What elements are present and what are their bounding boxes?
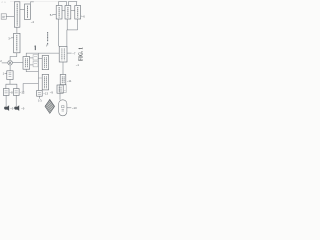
svg-text:~10: ~10 — [72, 106, 77, 110]
svg-text:~9: ~9 — [50, 90, 54, 94]
svg-text:~7: ~7 — [72, 52, 76, 56]
svg-text:~9: ~9 — [21, 107, 25, 111]
svg-text:5~: 5~ — [50, 13, 54, 17]
svg-text:~4: ~4 — [31, 20, 35, 24]
svg-text:~12: ~12 — [20, 91, 25, 95]
svg-text:1~: 1~ — [3, 72, 7, 76]
svg-text:~8: ~8 — [10, 90, 14, 94]
svg-text:~1: ~1 — [76, 63, 80, 67]
svg-text:~13: ~13 — [43, 92, 48, 96]
svg-text:3~: 3~ — [8, 36, 12, 40]
svg-text:~6: ~6 — [82, 15, 85, 19]
svg-text:FIG. 1: FIG. 1 — [78, 47, 85, 61]
svg-text:cs: cs — [2, 1, 8, 4]
svg-text:~11: ~11 — [67, 79, 72, 83]
svg-text:~9: ~9 — [10, 107, 14, 111]
